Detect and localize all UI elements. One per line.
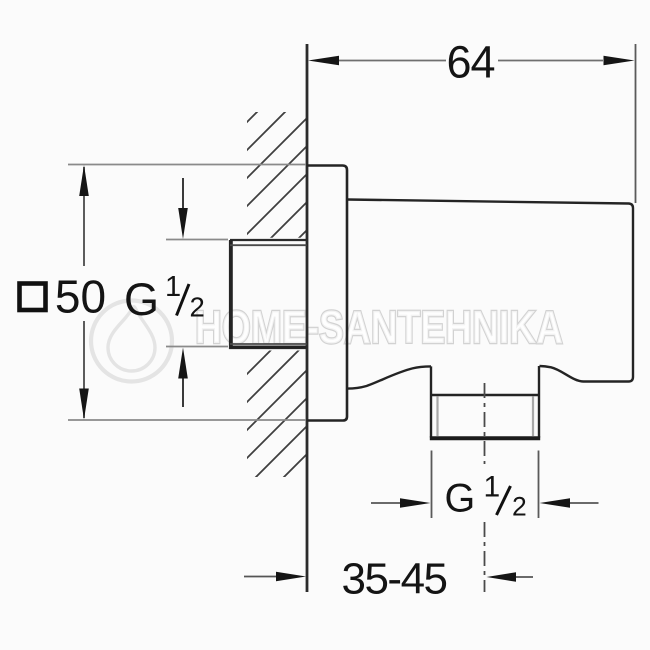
watermark logo ring <box>91 301 172 382</box>
svg-text:HOME-SANTEHNIKA: HOME-SANTEHNIKA <box>195 301 563 353</box>
dim 50: arrowheads <box>79 165 89 196</box>
body outline <box>348 200 634 382</box>
thread G1/2 left: extension lines <box>166 239 228 241</box>
dim G1/2 bottom: extension lines <box>431 451 433 519</box>
dim G1/2 bottom: dimension lines + arrows <box>371 502 401 504</box>
svg-text:2: 2 <box>190 292 205 323</box>
svg-text:35-45: 35-45 <box>341 555 446 604</box>
dim 35-45: left arrow to wall <box>244 576 277 578</box>
body bottom edge left of outlet <box>348 366 432 388</box>
dim 64: arrowheads <box>308 56 339 66</box>
dim 50: extension lines <box>68 164 306 166</box>
svg-text:G: G <box>445 477 476 521</box>
svg-text:2: 2 <box>512 492 527 522</box>
dim 35-45: right arrow to centerline <box>515 576 533 578</box>
thread G1/2 left: arrow down <box>182 178 184 210</box>
centerline of outlet (dash-dot) <box>484 383 486 464</box>
dim 64: extension line right <box>635 44 637 203</box>
outlet bottom edge <box>430 436 540 440</box>
outlet thread minor lines <box>436 397 438 437</box>
outlet thread shoulder line <box>430 394 540 396</box>
wall face line <box>306 44 309 592</box>
svg-text:1: 1 <box>484 471 501 504</box>
thread G1/2 left: arrow up <box>182 376 184 407</box>
outlet nipple (bottom, G 1/2) <box>538 366 540 438</box>
escutcheon flange (50x50 plate, edge view) <box>307 166 347 421</box>
svg-text:50: 50 <box>55 271 106 323</box>
inlet thread nipple through wall <box>230 240 307 348</box>
svg-text:1: 1 <box>165 271 181 303</box>
square symbol <box>20 284 46 311</box>
dim 50: dimension line <box>83 167 85 266</box>
svg-text:G: G <box>124 274 159 325</box>
dim 64: dimension line <box>339 60 446 62</box>
svg-text:64: 64 <box>446 37 494 88</box>
